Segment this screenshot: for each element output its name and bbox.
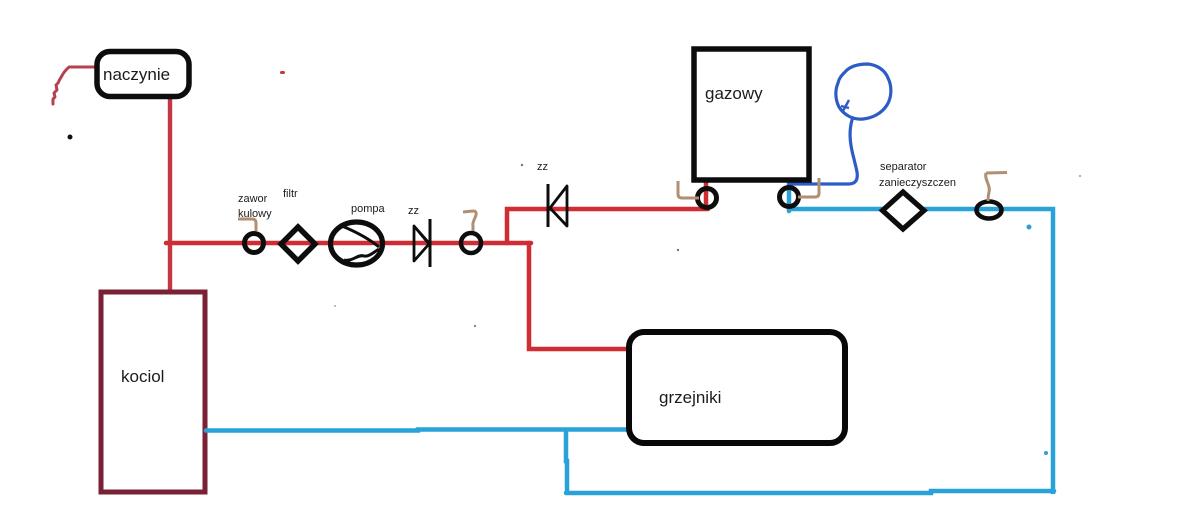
wire red riser to upper branch [507, 209, 708, 243]
stray blue dot lower [1044, 451, 1048, 455]
tan handle left of gazowy valve [678, 181, 699, 198]
check valve zz on upper branch [537, 161, 567, 227]
wire red down-leg to grzejniki [529, 243, 631, 349]
tan handle above valve circle [463, 211, 476, 231]
wire blue top-right horizontal [789, 207, 1055, 212]
wire blue kociol to grzejniki [206, 430, 629, 431]
wire main red supply pipe [166, 241, 531, 246]
gazowy box [694, 49, 809, 180]
tan handle right of gazowy valve [798, 178, 819, 197]
grzejniki box [629, 332, 845, 443]
wire red squiggle left of naczynie [53, 67, 96, 104]
valve circle under gazowy left [698, 189, 717, 208]
stray gray dot lower mid [474, 325, 476, 327]
expansion loop blue blob [789, 64, 891, 184]
svg-text:zz: zz [408, 205, 419, 217]
stray gray dot right [1079, 175, 1081, 177]
valve circle with tan handle on main pipe [461, 233, 481, 253]
stray black dot [68, 135, 73, 140]
wire blue right riser [1051, 207, 1056, 494]
zawor kulowy circle [238, 193, 272, 253]
svg-text:gazowy: gazowy [705, 84, 763, 103]
svg-text:pompa: pompa [351, 203, 386, 215]
wire blue drop from gazowy [787, 180, 792, 211]
stray faint dot [334, 305, 336, 307]
kociol box [101, 292, 205, 492]
stray gray dot near zz [521, 164, 523, 166]
svg-text:filtr: filtr [283, 188, 298, 200]
wire red vertical naczynie to kociol [168, 96, 172, 292]
svg-text:separator: separator [880, 161, 927, 173]
wire blue down-leg [566, 430, 567, 492]
filtr diamond [281, 188, 315, 261]
svg-text:kociol: kociol [121, 367, 164, 386]
svg-text:zanieczyszczen: zanieczyszczen [879, 177, 956, 189]
stray blue dot upper [1027, 225, 1032, 230]
tan handle above right valve circle [986, 173, 1007, 202]
tan handle above zawor kulowy [238, 219, 256, 231]
wire blue bottom return [566, 491, 1054, 493]
stray red dash [280, 71, 285, 74]
svg-text:naczynie: naczynie [103, 65, 170, 84]
separator zanieczyszczen diamond [879, 161, 956, 229]
svg-text:zawor: zawor [238, 193, 268, 205]
naczynie box [97, 52, 189, 97]
valve circle under gazowy right [780, 188, 799, 207]
pompa circle with impeller [331, 203, 386, 265]
wire red drop from gazowy [704, 180, 709, 211]
stray gray dot mid [677, 249, 679, 251]
svg-text:zz: zz [537, 161, 548, 173]
svg-text:kulowy: kulowy [238, 208, 272, 220]
svg-text:grzejniki: grzejniki [659, 388, 721, 407]
check valve zz on main pipe [408, 205, 430, 267]
valve circle right with tan handle [977, 202, 1002, 219]
